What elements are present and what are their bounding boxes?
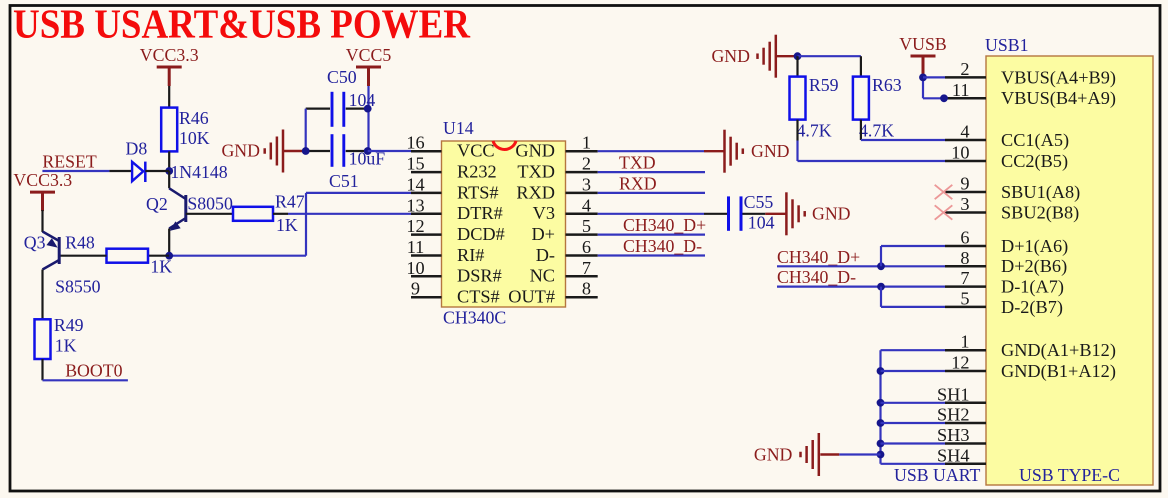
svg-text:9: 9	[411, 279, 420, 299]
svg-text:VBUS(B4+A9): VBUS(B4+A9)	[1001, 88, 1116, 109]
svg-text:USB UART: USB UART	[894, 465, 981, 485]
svg-text:15: 15	[406, 154, 424, 174]
svg-text:104: 104	[748, 213, 775, 233]
svg-text:C50: C50	[327, 67, 357, 87]
svg-text:D+1(A6): D+1(A6)	[1001, 236, 1068, 257]
svg-text:VBUS(A4+B9): VBUS(A4+B9)	[1001, 67, 1116, 88]
svg-text:BOOT0: BOOT0	[65, 361, 122, 381]
svg-text:D+2(B6): D+2(B6)	[1001, 256, 1067, 277]
svg-text:SH4: SH4	[937, 445, 970, 465]
svg-text:7: 7	[960, 268, 969, 288]
svg-text:R47: R47	[275, 192, 305, 212]
svg-text:DSR#: DSR#	[457, 266, 502, 286]
svg-text:GND: GND	[515, 141, 555, 161]
svg-text:RESET: RESET	[42, 152, 96, 172]
svg-text:1K: 1K	[150, 257, 172, 277]
svg-text:D8: D8	[126, 139, 148, 159]
svg-text:8: 8	[960, 248, 969, 268]
svg-text:11: 11	[952, 80, 970, 100]
svg-text:16: 16	[406, 133, 424, 153]
svg-text:OUT#: OUT#	[508, 287, 555, 307]
svg-text:6: 6	[582, 237, 591, 257]
svg-text:5: 5	[960, 288, 969, 308]
svg-text:GND(A1+B12): GND(A1+B12)	[1001, 340, 1116, 361]
svg-text:VCC3.3: VCC3.3	[13, 170, 72, 190]
svg-text:S8050: S8050	[187, 194, 233, 214]
svg-text:CH340_D-: CH340_D-	[623, 236, 702, 256]
svg-text:RXD: RXD	[516, 182, 555, 202]
svg-text:CH340_D+: CH340_D+	[623, 215, 706, 235]
svg-text:CC2(B5): CC2(B5)	[1001, 151, 1068, 172]
svg-text:12: 12	[406, 216, 424, 236]
svg-text:3: 3	[960, 194, 969, 214]
svg-text:VUSB: VUSB	[899, 34, 946, 54]
svg-text:GND: GND	[754, 445, 793, 465]
svg-text:RXD: RXD	[619, 174, 657, 194]
svg-text:DCD#: DCD#	[457, 224, 505, 244]
svg-text:DTR#: DTR#	[457, 203, 503, 223]
svg-text:VCC5: VCC5	[346, 45, 392, 65]
svg-text:10K: 10K	[179, 128, 210, 148]
svg-text:SH3: SH3	[937, 425, 970, 445]
svg-text:C55: C55	[744, 192, 774, 212]
svg-text:12: 12	[951, 353, 969, 373]
svg-text:5: 5	[582, 216, 591, 236]
svg-text:VCC: VCC	[457, 141, 495, 161]
svg-text:D-1(A7): D-1(A7)	[1001, 277, 1064, 298]
svg-text:4: 4	[582, 195, 591, 215]
svg-text:10: 10	[951, 143, 969, 163]
svg-text:R48: R48	[65, 233, 95, 253]
svg-text:10: 10	[406, 258, 424, 278]
svg-text:CH340_D+: CH340_D+	[777, 247, 860, 267]
svg-text:V3: V3	[533, 203, 555, 223]
svg-text:9: 9	[960, 174, 969, 194]
svg-text:GND(B1+A12): GND(B1+A12)	[1001, 361, 1116, 382]
svg-text:13: 13	[406, 195, 424, 215]
svg-text:1: 1	[960, 332, 969, 352]
svg-text:CH340C: CH340C	[443, 308, 506, 328]
svg-text:14: 14	[406, 174, 424, 194]
svg-text:RI#: RI#	[457, 245, 484, 265]
svg-text:SH2: SH2	[937, 405, 970, 425]
svg-text:D-2(B7): D-2(B7)	[1001, 297, 1063, 318]
svg-text:1K: 1K	[276, 215, 298, 235]
svg-text:104: 104	[349, 90, 376, 110]
svg-text:SBU2(B8): SBU2(B8)	[1001, 202, 1079, 223]
svg-text:Q3: Q3	[24, 233, 46, 253]
svg-text:R49: R49	[54, 315, 84, 335]
svg-text:4.7K: 4.7K	[797, 121, 832, 141]
svg-text:4.7K: 4.7K	[859, 121, 894, 141]
svg-text:2: 2	[582, 154, 591, 174]
svg-text:3: 3	[582, 174, 591, 194]
svg-text:TXD: TXD	[619, 153, 656, 173]
svg-text:S8550: S8550	[55, 277, 101, 297]
svg-text:SH1: SH1	[937, 384, 970, 404]
svg-text:USB USART&USB POWER: USB USART&USB POWER	[13, 1, 470, 47]
svg-text:1K: 1K	[55, 336, 77, 356]
svg-text:GND: GND	[751, 141, 790, 161]
svg-text:SBU1(A8): SBU1(A8)	[1001, 182, 1080, 203]
svg-text:GND: GND	[221, 141, 260, 161]
svg-text:TXD: TXD	[517, 162, 555, 182]
svg-text:NC: NC	[530, 266, 555, 286]
svg-text:VCC3.3: VCC3.3	[140, 45, 199, 65]
svg-text:R63: R63	[872, 75, 902, 95]
svg-text:8: 8	[582, 279, 591, 299]
svg-text:C51: C51	[329, 171, 359, 191]
svg-text:R232: R232	[457, 162, 497, 182]
svg-text:11: 11	[407, 237, 425, 257]
svg-text:1N4148: 1N4148	[170, 162, 227, 182]
svg-text:GND: GND	[812, 204, 851, 224]
svg-text:USB1: USB1	[985, 35, 1028, 55]
svg-text:Q2: Q2	[146, 194, 168, 214]
svg-text:CH340_D-: CH340_D-	[777, 267, 856, 287]
svg-text:USB TYPE-C: USB TYPE-C	[1019, 465, 1120, 485]
svg-text:RTS#: RTS#	[457, 182, 499, 202]
svg-text:GND: GND	[711, 46, 750, 66]
svg-text:7: 7	[582, 258, 591, 278]
svg-text:R59: R59	[809, 75, 839, 95]
svg-text:D+: D+	[531, 224, 555, 244]
svg-text:2: 2	[960, 59, 969, 79]
svg-text:CTS#: CTS#	[457, 287, 500, 307]
svg-text:U14: U14	[443, 118, 474, 138]
svg-text:4: 4	[960, 122, 969, 142]
svg-text:CC1(A5): CC1(A5)	[1001, 130, 1069, 151]
svg-text:1: 1	[582, 133, 591, 153]
svg-text:6: 6	[960, 228, 969, 248]
svg-text:R46: R46	[179, 108, 209, 128]
svg-text:D-: D-	[536, 245, 555, 265]
